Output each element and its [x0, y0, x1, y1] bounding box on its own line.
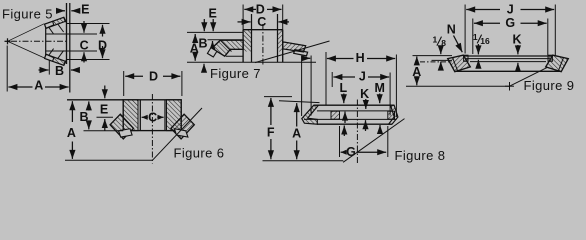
- svg-text:1: 1: [473, 32, 478, 42]
- svg-text:C: C: [148, 111, 157, 125]
- svg-text:F: F: [267, 125, 275, 139]
- svg-text:B: B: [55, 64, 64, 78]
- svg-text:B: B: [79, 110, 88, 124]
- svg-text:K: K: [360, 87, 369, 101]
- svg-text:C: C: [80, 38, 89, 52]
- svg-text:J: J: [359, 69, 366, 83]
- svg-text:C: C: [257, 15, 266, 29]
- svg-text:G: G: [346, 145, 356, 159]
- svg-text:E: E: [100, 103, 108, 117]
- svg-text:16: 16: [480, 36, 490, 46]
- svg-text:D: D: [98, 38, 107, 52]
- svg-text:Figure 9: Figure 9: [524, 78, 575, 93]
- svg-text:D: D: [149, 69, 158, 83]
- svg-text:B: B: [198, 36, 207, 50]
- svg-text:K: K: [512, 32, 521, 46]
- svg-text:A: A: [67, 126, 76, 140]
- svg-text:L: L: [339, 81, 347, 95]
- svg-text:A: A: [412, 65, 421, 79]
- svg-text:Figure 8: Figure 8: [395, 148, 446, 163]
- svg-text:1: 1: [433, 34, 438, 44]
- svg-text:H: H: [356, 51, 365, 65]
- svg-text:G: G: [505, 16, 515, 30]
- svg-text:M: M: [374, 81, 384, 95]
- svg-text:Figure 6: Figure 6: [174, 146, 225, 161]
- svg-text:J: J: [507, 2, 514, 16]
- svg-text:Figure 5: Figure 5: [2, 7, 53, 22]
- svg-text:8: 8: [441, 38, 446, 48]
- svg-text:A: A: [292, 127, 301, 141]
- svg-text:N: N: [447, 23, 456, 37]
- svg-text:E: E: [209, 7, 217, 21]
- svg-text:A: A: [190, 41, 199, 55]
- svg-text:A: A: [34, 79, 43, 93]
- svg-text:E: E: [81, 3, 89, 17]
- svg-text:Figure 7: Figure 7: [210, 66, 261, 81]
